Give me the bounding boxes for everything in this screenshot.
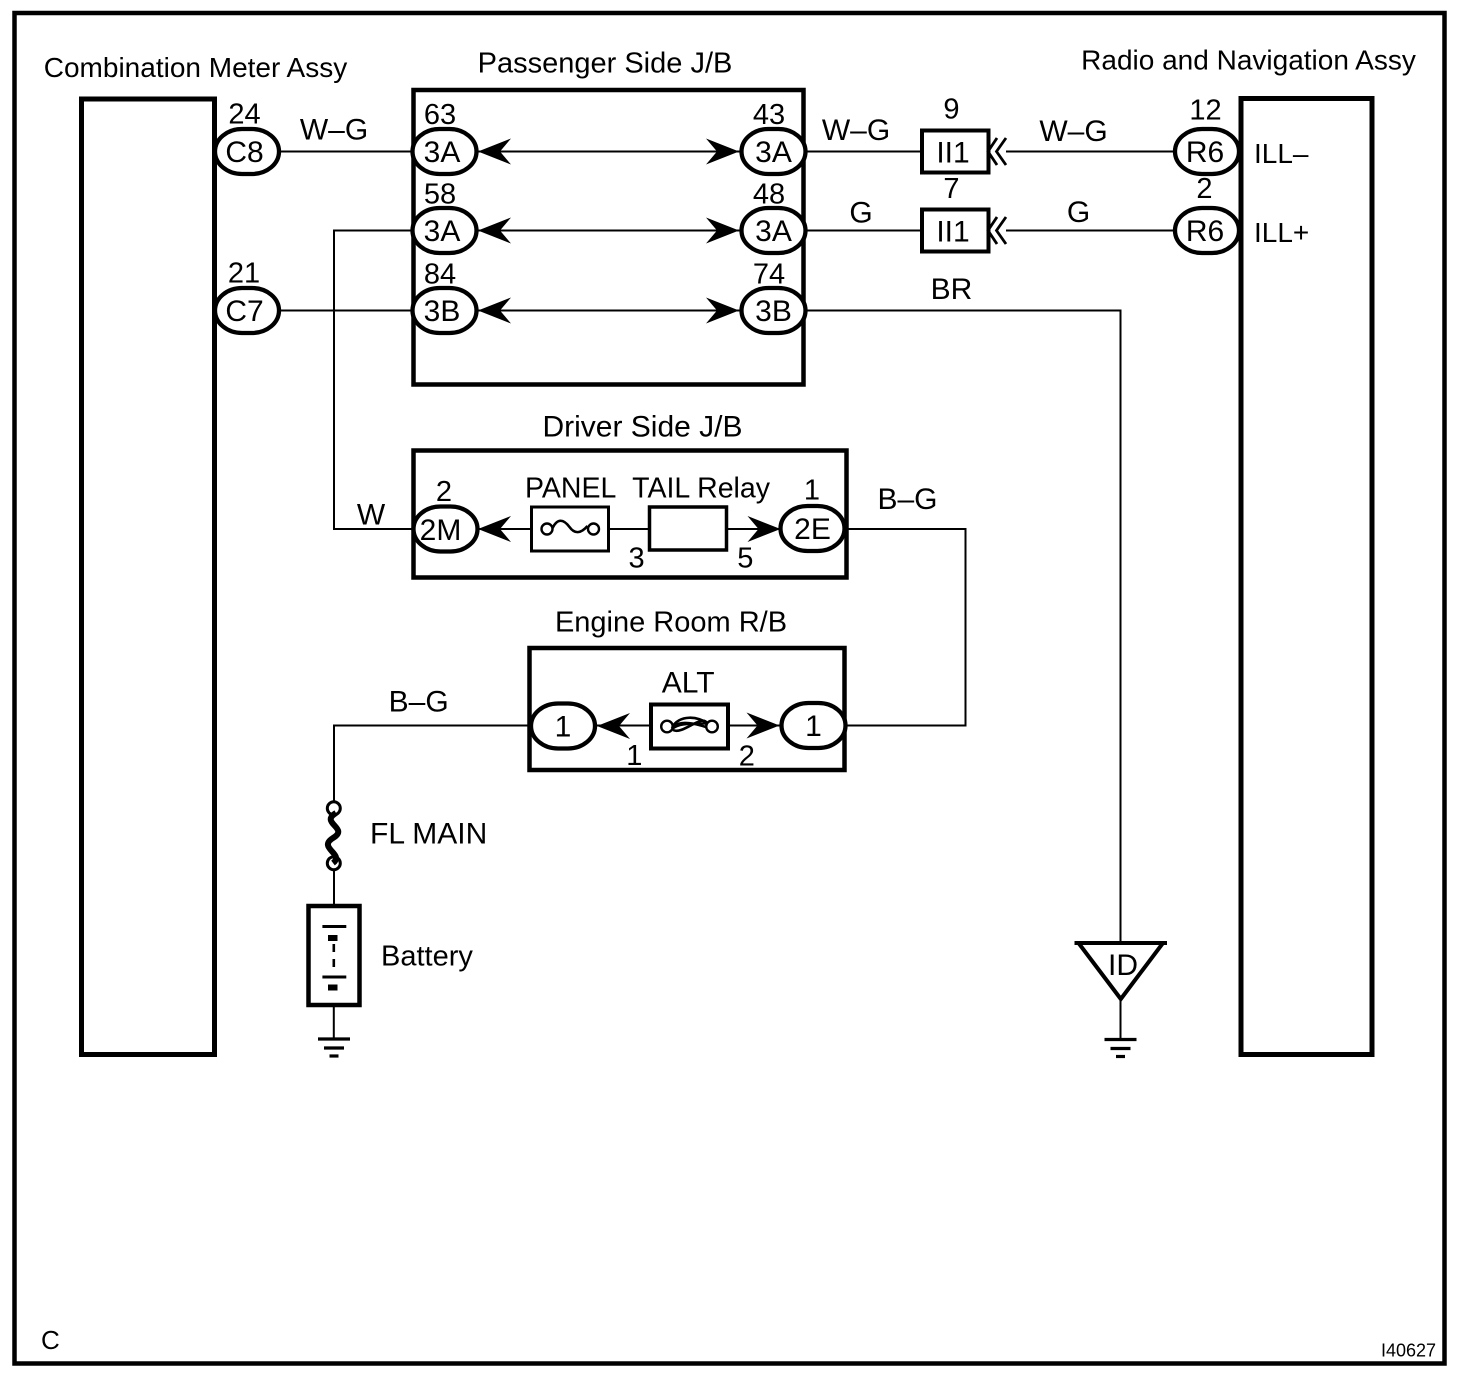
svg-text:63: 63 [424, 99, 456, 131]
svg-text:7: 7 [943, 173, 959, 205]
svg-text:1: 1 [804, 475, 820, 507]
svg-text:C: C [41, 1325, 60, 1355]
svg-text:G: G [849, 197, 872, 230]
svg-text:ID: ID [1108, 949, 1138, 982]
svg-text:2M: 2M [420, 514, 462, 547]
svg-text:II1: II1 [936, 216, 969, 249]
svg-text:Radio and Navigation Assy: Radio and Navigation Assy [1081, 45, 1416, 76]
svg-text:2: 2 [1196, 173, 1212, 205]
svg-text:84: 84 [424, 259, 456, 291]
svg-text:Passenger Side J/B: Passenger Side J/B [478, 48, 733, 80]
svg-text:2: 2 [436, 476, 452, 508]
svg-text:3B: 3B [424, 295, 461, 328]
svg-text:1: 1 [555, 711, 572, 744]
svg-text:Battery: Battery [381, 941, 473, 973]
svg-text:G: G [1067, 196, 1090, 229]
svg-text:ILL+: ILL+ [1254, 217, 1309, 248]
svg-text:74: 74 [753, 259, 785, 291]
svg-text:ALT: ALT [662, 667, 715, 700]
svg-text:I40627: I40627 [1381, 1341, 1436, 1361]
svg-text:2E: 2E [794, 513, 831, 546]
svg-text:3A: 3A [424, 136, 461, 169]
svg-text:W–G: W–G [822, 114, 890, 147]
svg-text:9: 9 [943, 94, 959, 126]
svg-text:Combination Meter Assy: Combination Meter Assy [44, 52, 347, 83]
svg-text:3B: 3B [755, 295, 792, 328]
svg-text:B–G: B–G [389, 686, 449, 719]
svg-text:W: W [357, 499, 386, 532]
svg-text:58: 58 [424, 179, 456, 211]
svg-text:B–G: B–G [877, 483, 937, 516]
svg-text:FL MAIN: FL MAIN [370, 818, 487, 851]
svg-text:21: 21 [228, 258, 260, 290]
svg-text:3A: 3A [755, 136, 792, 169]
svg-text:43: 43 [753, 99, 785, 131]
svg-text:2: 2 [739, 741, 755, 773]
svg-text:ILL–: ILL– [1254, 138, 1309, 169]
svg-text:1: 1 [805, 710, 822, 743]
svg-text:R6: R6 [1186, 136, 1224, 169]
svg-text:Engine Room R/B: Engine Room R/B [555, 607, 787, 639]
svg-text:12: 12 [1189, 95, 1221, 127]
svg-text:W–G: W–G [300, 114, 368, 147]
svg-text:C8: C8 [225, 136, 263, 169]
svg-text:W–G: W–G [1039, 115, 1107, 148]
svg-text:1: 1 [626, 740, 642, 772]
svg-text:R6: R6 [1186, 215, 1224, 248]
svg-text:Driver Side J/B: Driver Side J/B [542, 411, 742, 444]
svg-text:PANEL TAIL Relay: PANEL TAIL Relay [525, 473, 771, 505]
svg-text:3A: 3A [424, 215, 461, 248]
svg-text:24: 24 [228, 99, 260, 131]
svg-text:3A: 3A [755, 215, 792, 248]
svg-text:3: 3 [629, 543, 645, 575]
svg-text:48: 48 [753, 179, 785, 211]
svg-text:5: 5 [737, 543, 753, 575]
svg-text:BR: BR [931, 273, 973, 306]
svg-text:C7: C7 [225, 295, 263, 328]
svg-text:II1: II1 [936, 137, 969, 170]
